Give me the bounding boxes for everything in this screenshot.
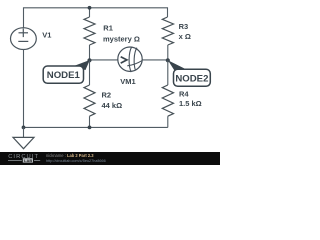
junction dot node2 (166, 58, 170, 62)
wire R4 bottom stub (167, 116, 169, 127)
junction dot node1 (87, 58, 91, 62)
svg-text:LAB: LAB (24, 158, 32, 163)
wire R2 top stub (89, 61, 91, 86)
svg-text:R2: R2 (102, 91, 112, 100)
wire R1 bottom stub (89, 45, 91, 60)
svg-text:R3: R3 (179, 22, 189, 31)
voltage source V1 (11, 28, 37, 50)
junction dot bottom R2 (88, 126, 92, 130)
svg-text:http://circuitlab.com/c/5eu27h: http://circuitlab.com/c/5eu27hz8666 (46, 159, 106, 163)
svg-text:mystery Ω: mystery Ω (103, 34, 140, 43)
footer bar (0, 152, 220, 165)
ground (13, 127, 34, 148)
junction dot bottom left (22, 126, 26, 130)
resistor R3 (162, 17, 173, 45)
svg-text:44 kΩ: 44 kΩ (102, 101, 123, 110)
svg-text:R1: R1 (103, 23, 113, 32)
svg-text:V1: V1 (42, 31, 51, 40)
wire R2 bottom stub (89, 116, 91, 127)
wire V1 bottom (23, 49, 25, 127)
svg-text:NODE1: NODE1 (47, 70, 81, 81)
svg-text:NODE2: NODE2 (175, 73, 208, 84)
node NODE1 (43, 60, 90, 83)
resistor R1 (84, 17, 95, 45)
svg-text:x Ω: x Ω (179, 32, 191, 41)
wire R3 bottom stub (167, 45, 169, 60)
svg-text:VM1: VM1 (120, 77, 135, 86)
svg-text:nickname : Lab 2 Part 2.3: nickname : Lab 2 Part 2.3 (46, 153, 94, 158)
resistor R2 (84, 85, 95, 116)
wire bottom horizontal (24, 126, 168, 128)
wire middle right (142, 59, 168, 61)
svg-text:R4: R4 (179, 90, 189, 99)
wire top horizontal (24, 8, 168, 28)
node junction top (88, 6, 92, 10)
wire R4 top stub (167, 61, 169, 86)
svg-text:1.5 kΩ: 1.5 kΩ (179, 99, 202, 108)
resistor R4 (162, 85, 173, 116)
CircuitLab logo (8, 154, 40, 163)
node NODE2 (168, 60, 210, 86)
voltmeter VM1 (118, 47, 142, 72)
wire middle left (90, 59, 119, 61)
wire R1 top stub (89, 8, 91, 17)
